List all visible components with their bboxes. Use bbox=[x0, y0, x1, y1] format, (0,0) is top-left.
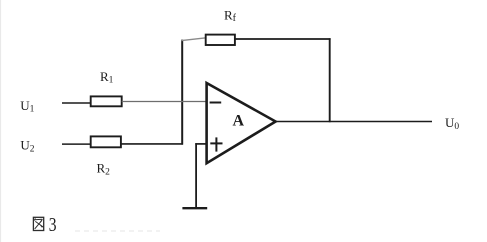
left page-edge stripe bbox=[0, 0, 2, 242]
wire: U2 input lead bbox=[62, 143, 92, 145]
op-amp U: triangle body A bbox=[207, 83, 276, 163]
wire: output bbox=[275, 121, 433, 123]
resistor R1 body bbox=[91, 96, 122, 106]
wire: R1 to inverting input node (light) bbox=[122, 101, 207, 103]
caption glyph 图 (drawn) bbox=[33, 217, 43, 230]
faint artifact dashes right of caption bbox=[75, 230, 160, 232]
op-amp noninverting input marker (plus) bbox=[210, 142, 222, 144]
resistor R2 body bbox=[91, 136, 121, 147]
op-amp inverting input marker (minus) bbox=[210, 102, 222, 104]
wire: R2 to feedback riser junction bbox=[121, 143, 183, 145]
wire: noninverting input lead bbox=[195, 143, 206, 145]
svg-text:3: 3 bbox=[49, 214, 57, 236]
svg-text:A: A bbox=[233, 113, 245, 130]
wire: feedback riser (node to Rf and U2 junction) bbox=[181, 40, 183, 145]
wire: top feedback wire (Rf right lead) bbox=[235, 38, 331, 40]
resistor Rf body bbox=[206, 35, 235, 45]
wire: Rf left lead (sloped, light) bbox=[182, 38, 207, 41]
wire: U1 input lead bbox=[62, 102, 92, 104]
ground symbol bbox=[182, 207, 207, 209]
wire: feedback drop to output bbox=[329, 38, 331, 122]
wire: ground riser bbox=[195, 143, 197, 208]
